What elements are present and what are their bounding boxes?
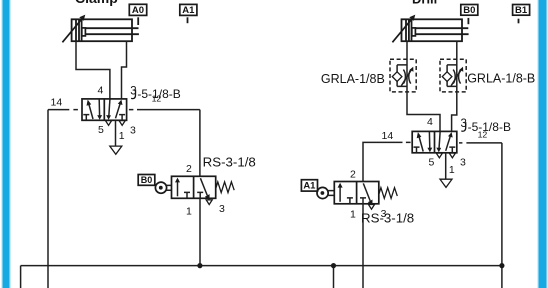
port label 14 of V1 [51,97,63,109]
spring of valve A1 [379,188,397,199]
svg-text:14: 14 [382,130,394,142]
port label 2 of valve A1 [350,168,356,180]
svg-text:2: 2 [186,163,192,175]
svg-text:Drill: Drill [412,0,437,6]
cylinder Clamp (double-acting) [62,15,138,43]
marker box A0 [129,4,146,16]
pilot line 14 of V1 (dashed) [48,109,78,111]
valve V2 5/2 impulse valve J-5-1/8-B [412,131,457,152]
svg-text:3: 3 [130,125,136,137]
port label 1 of valve B0 [186,206,192,218]
marker box B1 [513,5,530,16]
port label 1 of V1 [119,130,125,142]
wire bus branch down [333,266,335,288]
marker box B0 of roller valve [138,175,155,186]
port label 12 of V1 [152,93,162,103]
svg-text:-5-1/8-B: -5-1/8-B [468,120,511,134]
spring of valve B0 [216,182,234,193]
value label J-5-1/8-B of V1 [130,85,180,101]
marker box A1 of roller valve [301,180,317,192]
exhaust triangle V1 port 5 [106,121,112,126]
flow control GRLA-1/8-B right [440,59,466,92]
value label GRLA-1/8B left [321,72,385,86]
svg-text:GRLA-1/8-B: GRLA-1/8-B [467,71,535,85]
wire pilot 14 down left side [47,110,49,288]
wire clamp left port to valve port 4 [76,41,110,99]
exhaust triangle V2 port 1 [440,179,452,187]
pilot line 14 of V2 from valve A1 port 2 [363,142,411,181]
svg-text:-5-1/8-B: -5-1/8-B [137,87,180,101]
valve V1 5/2 impulse valve J-5-1/8-B [82,99,127,120]
svg-text:A1: A1 [303,181,316,192]
svg-text:3: 3 [381,208,387,220]
port label 5 of V1 [98,124,104,136]
svg-text:2: 2 [350,168,356,180]
marker tick B0 [467,18,469,24]
svg-text:1: 1 [186,206,192,218]
right cyan border bar [537,0,548,288]
exhaust triangle valve A1 port 3 [369,205,375,210]
label Clamp [75,0,118,6]
value label RS-3-1/8 of valve B0 [203,155,256,170]
valve B0 3/2 roller valve RS-3-1/8 [172,176,216,200]
exhaust triangle V1 port 1 [110,146,122,154]
svg-text:3: 3 [460,157,466,169]
port label 4 of V1 [98,84,104,96]
exhaust triangle V2 port 3 [449,153,455,158]
supply bus line [21,266,502,288]
exhaust triangle valve B0 port 3 [206,200,212,205]
port label 1 of V2 [449,164,455,176]
svg-text:4: 4 [98,84,104,96]
wire drill left port through flow control [407,41,440,131]
svg-text:3: 3 [219,203,225,215]
marker tick A0 [137,17,139,25]
wire valve A1 port 1 down [362,204,364,288]
wire drill right port through flow control [452,41,457,131]
svg-text:A1: A1 [182,5,195,16]
svg-text:RS-3-1/8: RS-3-1/8 [203,155,256,170]
svg-text:GRLA-1/8B: GRLA-1/8B [321,72,385,86]
svg-text:B0: B0 [463,5,475,16]
port label 12 of V2 [478,130,488,140]
roller actuator of valve A1 [317,187,334,198]
svg-text:1: 1 [449,164,455,176]
label Drill [412,0,437,6]
pilot line 12 of V1 to valve B0 port 2 [129,110,200,177]
wire valve B0 port 1 to bus [199,198,201,265]
svg-text:1: 1 [119,130,125,142]
wire V1 port 1 to exhaust [115,120,117,146]
port label 3 of valve A1 [381,208,387,220]
exhaust triangle V1 port 3 [119,121,125,126]
wire clamp right port to valve port 2 [122,41,127,99]
marker box B0 [461,5,478,16]
valve A1 3/2 roller valve RS-3-1/8 [334,182,379,206]
marker tick B1 [518,19,520,24]
svg-text:5: 5 [98,124,104,136]
svg-text:A0: A0 [132,5,144,16]
port label 3 of V1 [130,125,136,137]
exhaust triangle V2 port 5 [436,153,442,158]
junction node at bus branch [331,263,336,268]
svg-text:B1: B1 [515,5,528,16]
flow control GRLA-1/8B left [390,59,416,92]
svg-text:Clamp: Clamp [75,0,118,6]
left cyan border bar [1,0,11,288]
value label J-5-1/8-B of V2 [461,118,511,134]
svg-text:1: 1 [350,208,356,220]
junction node at pilot 12 drop [499,263,504,268]
port label 3 of V2 [460,157,466,169]
port label 1 of valve A1 [350,208,356,220]
port label 4 of V2 [427,116,433,128]
cylinder Drill (double-acting) [392,15,468,43]
svg-text:14: 14 [51,97,63,109]
port label 14 of V2 [382,130,394,142]
value label GRLA-1/8-B right [467,71,535,85]
junction node at valve B0 port 1 [197,263,202,268]
svg-text:5: 5 [429,156,435,168]
value label RS-3-1/8 of valve A1 [361,210,414,225]
svg-text:4: 4 [427,116,433,128]
svg-text:B0: B0 [141,175,153,185]
marker box A1 [180,4,197,16]
port label 2 of valve B0 [186,163,192,175]
roller actuator of valve B0 [155,182,171,193]
marker tick A1 [187,17,189,23]
port label 3 of valve B0 [219,203,225,215]
wire V2 port 1 to exhaust [445,153,447,179]
svg-text:RS-3-1/8: RS-3-1/8 [361,210,414,225]
port label 5 of V2 [429,156,435,168]
pilot line 12 of V2 to bus [459,143,502,288]
